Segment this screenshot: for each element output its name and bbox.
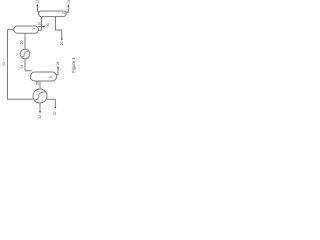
arrowhead down stream 30 (54, 107, 56, 109)
wire: V1 top-left outlet riser (37, 5, 39, 11)
wire: V2 bottom outlet to pump P1 (24, 33, 26, 49)
arrowhead right stream 18 (43, 26, 45, 28)
svg-text:10: 10 (2, 62, 6, 66)
pump P2 circle (33, 89, 47, 103)
vessel V2 (left horizontal drum) (14, 26, 39, 33)
svg-text:30: 30 (53, 112, 57, 116)
wire: V1 top-right outlet elbow and riser (65, 6, 68, 12)
pump P2 impeller squiggle (35, 92, 45, 100)
vessel V3 (lower horizontal drum) (30, 72, 56, 81)
svg-text:2: 2 (62, 12, 66, 14)
pump P1 impeller squiggle (22, 51, 28, 56)
vessel V1 (top horizontal drum) (39, 11, 66, 17)
wire: V3 top-right outlet riser (56, 68, 58, 75)
svg-text:6: 6 (49, 76, 53, 78)
arrowhead down stream 20 (61, 39, 63, 41)
wire: V3 bottom outlet to pump P2 (39, 81, 41, 89)
svg-text:28: 28 (36, 81, 40, 85)
wire: pump P2 discharge right with down arrow (47, 99, 56, 107)
wire: V2 feed line from bottom recycle (8, 30, 34, 99)
arrowhead up stream 12 (36, 4, 38, 6)
wire: V1 bottom-left downcomer into V2 (38, 17, 41, 30)
svg-text:32: 32 (38, 115, 42, 119)
wire: pump P2 bottom outlet (39, 103, 41, 112)
svg-text:18: 18 (46, 23, 50, 27)
arrowhead up stream 26 (57, 66, 59, 68)
arrowhead up stream 14 (67, 4, 69, 6)
svg-text:14: 14 (67, 0, 71, 3)
svg-text:Figure 1: Figure 1 (71, 57, 76, 73)
wire: V2 vapor arrow line (38, 26, 44, 28)
pump P1 circle (20, 49, 30, 59)
wire: V1 bottom-right downcomer with jog (56, 17, 62, 39)
svg-text:20: 20 (60, 41, 64, 45)
svg-text:22: 22 (20, 40, 24, 44)
svg-text:16: 16 (37, 22, 41, 26)
svg-text:26: 26 (56, 62, 60, 66)
wire: pump P1 discharge to V3 (25, 59, 32, 71)
svg-text:12: 12 (35, 0, 39, 3)
svg-text:4: 4 (33, 27, 37, 29)
arrowhead down stream 32 (39, 111, 41, 113)
svg-text:24: 24 (20, 65, 24, 69)
